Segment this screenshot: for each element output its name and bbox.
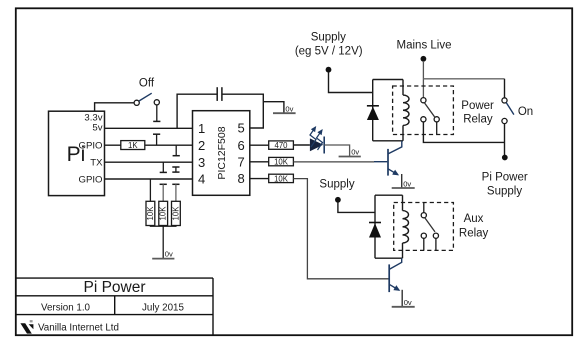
svg-text:Off: Off [139, 78, 155, 90]
capacitor C1 [216, 87, 218, 101]
Raspberry Pi module [49, 111, 105, 195]
relay contact common [421, 98, 426, 103]
resistor R6 10K [269, 157, 294, 165]
wire 5v to pin1 [105, 127, 193, 129]
svg-text:Aux: Aux [464, 213, 484, 225]
aux contact arm [425, 218, 435, 232]
flyback diode D3 [369, 222, 381, 224]
wire 3.3v to switch [95, 103, 135, 111]
svg-text:1: 1 [198, 121, 205, 136]
svg-text:5: 5 [238, 120, 245, 135]
svg-text:Pi Power: Pi Power [83, 279, 145, 296]
wire pin8 to R7 [250, 178, 269, 180]
svg-text:GPIO: GPIO [79, 140, 103, 151]
wire rail left vertical [177, 94, 217, 128]
connector stub to pulldown R4 [172, 183, 179, 185]
aux relay dashed boundary [394, 203, 454, 251]
aux contact common stub [423, 203, 425, 213]
wire R1 to pin2 [145, 144, 193, 146]
svg-text:5v: 5v [92, 123, 102, 134]
relay contact arm [424, 103, 434, 117]
svg-text:2: 2 [198, 138, 205, 153]
resistor R2 10K [146, 201, 155, 225]
relay contact NC [434, 117, 439, 122]
IC U1 PIC12F508 [193, 111, 250, 196]
resistor R1 1K [121, 141, 145, 150]
svg-text:Relay: Relay [459, 228, 489, 240]
wire pin7 to R6 [250, 161, 269, 163]
relay coil L2 [403, 211, 409, 243]
power relay driver box [373, 80, 403, 141]
svg-text:0v: 0v [403, 179, 411, 188]
svg-text:1K: 1K [128, 141, 138, 150]
wire Supply1 to relay [329, 72, 373, 93]
aux contact NC [433, 233, 438, 238]
wire R6 to Q1 base [293, 161, 374, 163]
relay contact NO [421, 117, 426, 122]
ground 0v capacitor [263, 102, 284, 113]
connector link stub [172, 166, 179, 168]
flyback diode D2 [367, 105, 379, 107]
svg-text:Power: Power [461, 100, 494, 112]
svg-text:Version 1.0: Version 1.0 [41, 302, 91, 313]
wire On switch down [504, 124, 506, 155]
svg-text:July 2015: July 2015 [142, 302, 184, 313]
svg-text:Mains Live: Mains Live [397, 40, 452, 52]
aux contact NO [421, 233, 426, 238]
svg-text:TX: TX [90, 158, 103, 169]
svg-text:0v: 0v [285, 104, 293, 113]
wire aux NC stub [435, 238, 437, 250]
svg-text:Vanilla Internet Ltd: Vanilla Internet Ltd [38, 323, 119, 334]
svg-text:Supply: Supply [311, 32, 346, 44]
wire GPIO to R1 [105, 144, 121, 146]
svg-text:10K: 10K [146, 206, 155, 221]
ground 0v Q1 [392, 187, 415, 189]
svg-text:(eg 5V / 12V): (eg 5V / 12V) [295, 46, 363, 58]
wire rail right to pin5 [222, 94, 263, 128]
wire contact output [423, 122, 504, 142]
connector stub to pulldown R3 [160, 183, 167, 185]
wire TX to pin3 [105, 161, 193, 163]
aux relay driver box [375, 195, 403, 258]
svg-text:On: On [518, 106, 533, 118]
ground 0v pulldowns [162, 226, 164, 258]
svg-text:4: 4 [198, 172, 205, 187]
svg-text:Relay: Relay [463, 114, 493, 126]
relay coil L1 [403, 95, 409, 125]
power relay dashed boundary [393, 86, 454, 135]
wire aux NO stub [423, 238, 425, 250]
svg-text:470: 470 [274, 141, 288, 150]
wire pulldown common [150, 225, 176, 228]
wire Supply2 to aux relay [338, 202, 375, 212]
svg-text:0v: 0v [404, 298, 412, 307]
svg-text:10K: 10K [274, 158, 289, 167]
wire pin6 to R5 [250, 144, 269, 146]
wire mains to On switch [423, 78, 504, 80]
wire LED to ground [324, 145, 349, 156]
svg-text:10K: 10K [171, 206, 180, 221]
ground 0v Q2 [392, 306, 415, 308]
connector stub down on TX wire [162, 162, 164, 172]
svg-text:0v: 0v [351, 148, 359, 157]
resistor R4 10K [172, 201, 181, 225]
svg-text:10K: 10K [274, 174, 289, 183]
LED D1 [310, 138, 323, 151]
connector stub up on pin2 wire [156, 134, 158, 145]
transistor Q2 [389, 258, 402, 292]
svg-text:10K: 10K [159, 206, 168, 221]
wire GPIO2 to pin4 [105, 178, 193, 180]
wire Mains Live down [422, 61, 424, 98]
svg-text:Supply: Supply [487, 185, 522, 197]
LED light arrows [310, 127, 323, 150]
logo Vanilla Internet [20, 323, 31, 333]
resistor R3 10K [159, 201, 168, 225]
svg-text:7: 7 [238, 154, 245, 169]
resistor R7 10K [269, 174, 294, 182]
connector stub down on pin2 wire [175, 145, 177, 156]
resistor R5 470 [269, 141, 294, 149]
ground 0v LED [339, 156, 361, 158]
svg-text:8: 8 [238, 171, 245, 186]
switch SW2 On [502, 98, 507, 103]
connector stub from switch to 5v [156, 105, 158, 121]
svg-text:Supply: Supply [319, 179, 354, 191]
svg-text:GPIO: GPIO [79, 174, 103, 185]
wire to pulldown R2 [149, 179, 151, 201]
title block [16, 278, 213, 335]
node Pi Power Supply [502, 155, 508, 161]
switch SW1 Off [134, 100, 139, 105]
svg-text:6: 6 [238, 138, 245, 153]
svg-text:0v: 0v [165, 250, 173, 259]
svg-text:3: 3 [198, 155, 205, 170]
svg-text:Pi Power: Pi Power [482, 172, 528, 184]
transistor Q1 [388, 141, 402, 176]
wire contact NC stub [436, 122, 438, 135]
svg-text:PIC12F508: PIC12F508 [216, 126, 228, 179]
wire R5 to LED [293, 144, 310, 146]
wire R7 to Q2 base [293, 179, 388, 279]
aux contact common [421, 213, 426, 218]
